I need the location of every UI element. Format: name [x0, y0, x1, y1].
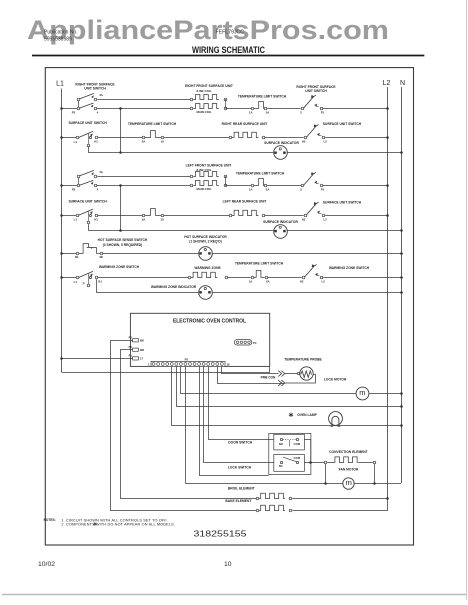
svg-text:2A: 2A	[142, 217, 146, 221]
svg-text:FAN MOTOR: FAN MOTOR	[339, 467, 359, 471]
lamp surface indicator row4	[274, 225, 288, 239]
svg-text:NO: NO	[279, 442, 283, 446]
probe connector chevrons bottom	[278, 380, 281, 386]
switch terminal left	[304, 136, 307, 139]
svg-text:TEMPERATURE LIMIT SWITCH: TEMPERATURE LIMIT SWITCH	[235, 261, 284, 265]
wire P5 pin11 drop to door assembly	[200, 367, 269, 476]
svg-text:LEFT REAR SURFACE UNIT: LEFT REAR SURFACE UNIT	[223, 200, 267, 204]
electronic oven control box	[130, 313, 269, 366]
svg-text:L2: L2	[323, 217, 327, 221]
coil tie wire	[225, 99, 227, 108]
switch arm	[79, 271, 93, 277]
svg-text:L2: L2	[323, 140, 327, 144]
wire L1 corner to oven control	[62, 367, 270, 373]
temperature limiter row4	[142, 214, 145, 217]
wire fan row	[186, 483, 402, 485]
switch arm	[305, 264, 317, 277]
svg-text:FEFL79JCC: FEFL79JCC	[216, 29, 245, 35]
svg-text:(3 SHOWN, 5 REQUIRED): (3 SHOWN, 5 REQUIRED)	[103, 243, 143, 247]
bake element	[256, 509, 259, 512]
resistor left rear surface unit	[229, 214, 232, 217]
switch contact arrow	[90, 134, 92, 136]
svg-text:318255155: 318255155	[194, 529, 248, 538]
svg-text:TEMPERATURE LIMIT SWITCH: TEMPERATURE LIMIT SWITCH	[238, 94, 287, 98]
svg-text:SURFACE UNIT SWITCH: SURFACE UNIT SWITCH	[323, 200, 362, 204]
temperature limiter row3	[251, 184, 254, 187]
door switch contacts	[280, 438, 282, 440]
svg-text:AppliancePartsPros.com: AppliancePartsPros.com	[27, 15, 389, 45]
wire indicator to N row1	[287, 152, 401, 154]
title underline	[32, 55, 424, 57]
svg-text:RIGHT REAR SURFACE UNIT: RIGHT REAR SURFACE UNIT	[222, 122, 268, 126]
svg-text:SURFACE UNIT SWITCH: SURFACE UNIT SWITCH	[323, 122, 362, 126]
switch terminal right	[322, 214, 325, 217]
schematic border frame	[45, 68, 413, 545]
footer rule	[2, 594, 466, 596]
svg-text:P2: P2	[129, 345, 133, 349]
door switch inner box	[274, 434, 305, 450]
switch terminal right	[320, 107, 323, 110]
oven lamp star mark	[289, 413, 293, 417]
switch arm terminals	[78, 99, 80, 108]
junction to indicator drop	[119, 107, 122, 110]
wire indicator to N row5	[212, 253, 401, 255]
svg-text:COM: COM	[294, 442, 301, 446]
switch contact arrow	[90, 274, 92, 276]
switch arm terminals	[78, 176, 80, 185]
wire warming indicator	[97, 292, 199, 294]
svg-text:2A: 2A	[266, 110, 270, 114]
switch contact arrow	[90, 212, 92, 214]
svg-text:2: 2	[300, 110, 302, 114]
wire L1 to switch row4	[60, 214, 63, 217]
wire P5 pin12 drop to lock switch	[204, 367, 274, 463]
resistor warming zone	[188, 276, 191, 279]
wire L1 to switch row3	[60, 184, 63, 187]
temperature limiter row2	[142, 136, 145, 139]
svg-text:3B: 3B	[99, 255, 103, 259]
svg-text:WIRING SCHEMATIC: WIRING SCHEMATIC	[192, 45, 265, 55]
fan motor	[343, 478, 354, 489]
switch arm	[307, 124, 319, 137]
wire limiter to element row4	[164, 215, 229, 217]
wire P5 pin15 drop to probe bottom	[218, 367, 285, 384]
lock motor	[356, 387, 369, 400]
switch pole drop	[88, 134, 90, 145]
svg-text:HOT SURFACE SENSE SWITCH: HOT SURFACE SENSE SWITCH	[98, 238, 148, 242]
wire P5 pin16 drop to probe top	[222, 367, 279, 374]
wire element to switch row4	[265, 215, 304, 217]
probe connector chevrons top	[278, 371, 281, 377]
svg-text:4: 4	[97, 110, 99, 114]
wire limiter to switch row6	[267, 277, 301, 279]
svg-text:P5: P5	[185, 357, 189, 361]
wire P5 pin6 drop to N mid	[177, 367, 402, 407]
connector P4	[234, 340, 252, 345]
svg-text:L2: L2	[383, 80, 391, 87]
wire P5 pin5 drop to oven lamp	[172, 367, 402, 426]
switch terminal right	[320, 276, 323, 279]
svg-text:SURFACE INDICATOR: SURFACE INDICATOR	[263, 220, 298, 224]
temperature limiter row1	[251, 107, 254, 110]
svg-text:WARMING ZONE SWITCH: WARMING ZONE SWITCH	[99, 265, 140, 269]
switch arm	[304, 172, 316, 185]
svg-text:P1: P1	[321, 188, 325, 192]
switch arm upper	[80, 93, 95, 99]
wire coil to limiter row3	[226, 185, 251, 187]
wire switch to L2 row3	[323, 185, 388, 187]
wire upper to coil row3	[97, 176, 190, 178]
svg-text:L1: L1	[74, 280, 78, 284]
svg-text:P2: P2	[72, 110, 76, 114]
wire switch to limiter row4	[98, 215, 142, 217]
svg-text:WARMING ZONE SWITCH: WARMING ZONE SWITCH	[329, 266, 370, 270]
switch arm lower	[80, 103, 94, 108]
wire switch to limiter row2	[98, 137, 142, 139]
svg-text:m: m	[346, 478, 352, 487]
wire door switch COM down	[304, 440, 310, 463]
svg-text:NOTES:: NOTES:	[44, 518, 56, 522]
svg-text:m: m	[359, 388, 365, 397]
wire upper to coil	[97, 99, 190, 101]
wire indicator row4	[88, 230, 273, 232]
wire element to switch row2	[265, 137, 304, 139]
switch arm lower	[80, 180, 94, 185]
switch terminal left	[302, 276, 305, 279]
svg-text:WARMING ZONE: WARMING ZONE	[194, 266, 221, 270]
wire LT pin to L1	[61, 358, 132, 360]
svg-text:UNIT SWITCH: UNIT SWITCH	[305, 89, 327, 93]
svg-text:L1: L1	[56, 81, 64, 88]
wire broil to L2	[292, 498, 388, 500]
svg-text:BAKE ELEMENT: BAKE ELEMENT	[225, 499, 251, 503]
resistor left front 8-inf coil	[190, 175, 193, 178]
svg-text:OVEN LAMP: OVEN LAMP	[297, 413, 317, 417]
switch terminal left	[304, 214, 307, 217]
svg-text:P1: P1	[321, 110, 325, 114]
svg-text:P1: P1	[129, 354, 133, 358]
svg-text:MAIN COIL: MAIN COIL	[196, 110, 211, 114]
EOC pin P3 BK	[133, 339, 139, 342]
wire lock switch to convection	[304, 462, 324, 464]
wire bake to L2 corner	[293, 499, 388, 511]
svg-text:L1: L1	[74, 218, 78, 222]
resistor right front 8-inf coil	[190, 98, 193, 101]
wire switch to L2 row2	[325, 137, 388, 139]
svg-text:10/02: 10/02	[38, 561, 55, 568]
svg-text:BR: BR	[140, 348, 144, 352]
svg-text:SURFACE INDICATOR: SURFACE INDICATOR	[264, 141, 299, 145]
switch arm	[79, 131, 93, 137]
svg-text:4: 4	[97, 188, 99, 192]
wire indicator to N row4	[287, 230, 401, 232]
svg-text:4A: 4A	[99, 93, 103, 97]
lock switch contacts	[280, 461, 282, 463]
page right edge line	[466, 0, 468, 600]
switch terminal	[76, 136, 79, 139]
temperature probe	[285, 373, 298, 375]
svg-text:CONVECTION ELEMENT: CONVECTION ELEMENT	[329, 450, 368, 454]
wire convection left drop	[325, 464, 327, 483]
switch pole drop	[88, 274, 90, 285]
svg-text:8-INF COIL: 8-INF COIL	[197, 89, 212, 93]
svg-text:2: 2	[300, 188, 302, 192]
switch contact tick	[317, 211, 319, 213]
lamp warming zone indicator	[199, 286, 213, 300]
lamp hot surface indicator	[199, 247, 213, 261]
switch contact lower	[94, 184, 97, 187]
svg-text:H2: H2	[300, 280, 304, 284]
svg-text:2A: 2A	[142, 140, 146, 144]
switch terminal right	[322, 136, 325, 139]
wire switch to N row6	[323, 277, 401, 279]
wire contact drop to indicator row	[96, 279, 98, 293]
svg-text:P4: P4	[253, 341, 257, 345]
switch terminal	[76, 214, 79, 217]
wire P5 pin7 drop to lock motor	[181, 367, 357, 394]
wire switch to L2	[323, 108, 388, 110]
switch arm upper	[80, 170, 95, 176]
svg-text:P2: P2	[72, 188, 76, 192]
svg-text:BK: BK	[140, 339, 144, 343]
wire P5 pin8 drop to fan motor	[185, 367, 187, 484]
switch arm	[307, 202, 319, 215]
switch contact	[95, 214, 98, 217]
wire coil to limiter	[226, 108, 251, 110]
junction to indicator drop row3	[119, 184, 122, 187]
svg-text:5995538989: 5995538989	[44, 37, 72, 43]
svg-text:TEMPERATURE LIMIT SWITCH: TEMPERATURE LIMIT SWITCH	[236, 172, 285, 176]
svg-text:TEMPERATURE LIMIT SWITCH: TEMPERATURE LIMIT SWITCH	[128, 122, 177, 126]
svg-text:1A: 1A	[161, 140, 165, 144]
bus N wire	[401, 87, 403, 483]
svg-text:B1: B1	[98, 279, 102, 283]
EOC pin P1 LT	[133, 357, 139, 360]
svg-text:1A: 1A	[249, 110, 253, 114]
wire BR pin to broil element	[121, 350, 257, 499]
svg-text:2A: 2A	[266, 280, 270, 284]
svg-text:UNIT SWITCH: UNIT SWITCH	[84, 87, 106, 91]
wire indicator row1	[88, 152, 273, 154]
wire drop to indicator row	[120, 109, 122, 153]
wire limiter to switch row3	[267, 185, 301, 187]
svg-text:H2: H2	[302, 217, 306, 221]
resistor right front main coil	[190, 107, 193, 110]
svg-text:2A: 2A	[266, 188, 270, 192]
svg-text:RIGHT FRONT SURFACE UNIT: RIGHT FRONT SURFACE UNIT	[185, 84, 233, 88]
switch arm	[304, 95, 316, 108]
wire P5 pin13 drop to door switch	[209, 367, 274, 440]
svg-text:1A: 1A	[249, 188, 253, 192]
svg-text:N: N	[400, 80, 405, 87]
wire lower to coil	[97, 108, 191, 110]
coil tie wire row3	[225, 176, 227, 186]
switch pole drop	[88, 211, 90, 222]
svg-text:L1: L1	[74, 140, 78, 144]
wire L1 to switch	[60, 107, 63, 110]
switch terminal left	[301, 107, 304, 110]
svg-text:BROIL ELEMENT: BROIL ELEMENT	[228, 487, 255, 491]
svg-text:COM: COM	[294, 456, 301, 460]
svg-text:P: P	[83, 282, 85, 286]
svg-text:L2: L2	[321, 280, 325, 284]
resistor left front main coil	[190, 184, 193, 187]
svg-text:1A: 1A	[249, 280, 253, 284]
svg-text:(1 SHOWN, 2 REQ'D): (1 SHOWN, 2 REQ'D)	[189, 240, 221, 244]
svg-text:LOCK SWITCH: LOCK SWITCH	[228, 465, 252, 469]
svg-text:10: 10	[224, 561, 232, 568]
switch contact lower	[94, 107, 97, 110]
wire drop to indicator row4	[120, 186, 122, 231]
svg-text:H1: H1	[94, 217, 98, 221]
svg-text:SURFACE UNIT SWITCH: SURFACE UNIT SWITCH	[68, 121, 107, 125]
wire switch to L2 row4	[325, 215, 388, 217]
svg-text:PRB CON: PRB CON	[261, 376, 276, 380]
svg-text:LOCK MOTOR: LOCK MOTOR	[324, 378, 347, 382]
wire L1 to sense switch	[60, 252, 63, 255]
wire limiter to switch	[267, 108, 300, 110]
switch hot surface sense	[76, 252, 79, 255]
EOC pin P2 BR	[133, 348, 139, 351]
resistor right rear surface unit	[229, 136, 232, 139]
wire warming indicator to N	[212, 292, 401, 294]
svg-text:DOOR SWITCH: DOOR SWITCH	[228, 440, 252, 444]
switch terminal	[76, 276, 79, 279]
svg-text:TEMPERATURE PROBE: TEMPERATURE PROBE	[284, 357, 322, 361]
svg-text:LEFT FRONT SURFACE UNIT: LEFT FRONT SURFACE UNIT	[186, 164, 232, 168]
svg-text:HOT SURFACE INDICATOR: HOT SURFACE INDICATOR	[184, 235, 227, 239]
wire L1 to warming switch	[60, 276, 63, 279]
svg-text:P3: P3	[129, 335, 133, 339]
wire switch to element row6	[98, 277, 188, 279]
switch contact upper	[94, 98, 97, 101]
svg-text:1A: 1A	[161, 217, 165, 221]
door switch outer box	[269, 434, 311, 475]
wire lock motor to N	[369, 393, 401, 395]
wire BK pin to bake element	[111, 341, 257, 511]
svg-text:WARMING ZONE INDICATOR: WARMING ZONE INDICATOR	[151, 285, 197, 289]
lamp oven light	[329, 412, 343, 426]
wire limiter to element row2	[164, 137, 229, 139]
broil element	[256, 497, 259, 500]
switch contact tick	[315, 181, 317, 183]
switch contact tick	[317, 133, 319, 135]
switch contact	[95, 136, 98, 139]
svg-text:4A: 4A	[99, 170, 103, 174]
convection element	[324, 461, 327, 464]
svg-text:H1: H1	[94, 140, 98, 144]
wire sense to indicator	[103, 253, 199, 255]
switch terminal right	[320, 184, 323, 187]
svg-text:H2: H2	[302, 140, 306, 144]
wire L1 to switch row2	[60, 136, 63, 139]
svg-text:1B: 1B	[75, 255, 79, 259]
switch contact tick	[315, 273, 317, 275]
switch contact tick	[315, 104, 317, 106]
temperature limiter row6	[251, 276, 254, 279]
lamp surface indicator row1	[274, 146, 288, 160]
bus L1 wire	[61, 89, 63, 373]
wire lower to coil row3	[97, 185, 191, 187]
svg-text:NC: NC	[279, 464, 283, 468]
wire convection right drop	[374, 464, 376, 483]
switch terminal left	[301, 184, 304, 187]
switch arm	[79, 209, 93, 215]
svg-text:ELECTRONIC OVEN CONTROL: ELECTRONIC OVEN CONTROL	[173, 318, 247, 324]
svg-text:MAIN COIL: MAIN COIL	[196, 187, 211, 191]
wire element to limiter row6	[227, 277, 250, 279]
svg-text:Publication No.: Publication No.	[44, 30, 78, 36]
svg-text:2. COMPONENTS WITH DO NO: 2. COMPONENTS WITH DO NOT APPEAR ON ALL …	[61, 523, 175, 527]
switch contact	[95, 276, 98, 279]
svg-text:SURFACE UNIT SWITCH: SURFACE UNIT SWITCH	[68, 200, 107, 204]
svg-text:LT: LT	[140, 357, 144, 361]
switch contact upper	[94, 175, 97, 178]
bus L2 wire	[387, 87, 389, 499]
lock switch inner box	[274, 455, 305, 472]
